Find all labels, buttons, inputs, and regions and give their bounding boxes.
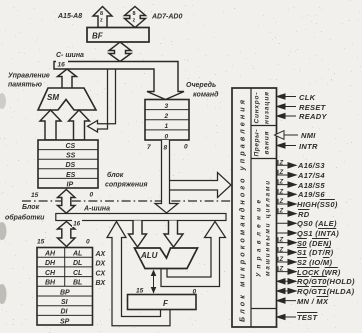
- pin TEST: [277, 314, 297, 319]
- svg-text:SP: SP: [60, 318, 70, 325]
- pin label A19/S6: [298, 190, 325, 199]
- pin RQ/GT1 bidirectional: [277, 288, 297, 293]
- svg-text:CX: CX: [96, 270, 107, 277]
- svg-text:SI: SI: [61, 299, 69, 306]
- Z markers for tri-state pins: [279, 160, 284, 272]
- svg-text:15: 15: [136, 288, 144, 295]
- svg-text:Z: Z: [279, 170, 284, 176]
- pin CLK: [284, 96, 296, 98]
- svg-text:Z: Z: [279, 257, 284, 263]
- svg-text:0: 0: [86, 239, 90, 246]
- svg-text:DL: DL: [73, 260, 82, 267]
- svg-text:15: 15: [37, 239, 45, 246]
- svg-text:1: 1: [165, 123, 169, 130]
- bus C (C-shina bar) with branch arrow down into instruction queue: [54, 62, 184, 100]
- adder SM (address summator): [38, 88, 96, 110]
- svg-text:CL: CL: [73, 270, 82, 277]
- pin label LOCK (WR): [297, 268, 341, 277]
- bus arrow IP stack to A-bus bidirectional: [58, 190, 76, 214]
- label 16 on A-bus: [72, 218, 82, 228]
- svg-text:Очередь: Очередь: [186, 81, 216, 89]
- pin RESET: [284, 106, 296, 108]
- pin A17/S4: [277, 170, 297, 178]
- svg-text:0: 0: [184, 144, 188, 151]
- svg-text:BX: BX: [96, 280, 107, 287]
- bus arrow BF to C-bus bidirectional: [109, 42, 131, 62]
- scan smudge left edge 3: [0, 284, 7, 304]
- svg-text:SM: SM: [47, 93, 59, 102]
- svg-text:Z: Z: [279, 160, 284, 166]
- svg-text:IP: IP: [67, 181, 74, 188]
- svg-text:Z: Z: [279, 199, 284, 205]
- ALU block (trapezoid with notch): [135, 248, 198, 269]
- bus arrow A-bus down to ALU left input: [129, 221, 147, 248]
- pin A16/S3: [277, 160, 297, 168]
- pin label NMI: [301, 131, 316, 140]
- svg-text:SS: SS: [66, 153, 76, 160]
- svg-text:сопряжения: сопряжения: [105, 182, 148, 189]
- pin label RQ/GT1 (HLDA): [297, 287, 354, 296]
- svg-text:команд: команд: [193, 91, 219, 99]
- bus arrow SM to C-bus: [58, 69, 77, 89]
- instruction queue block: [145, 100, 189, 141]
- pin QS1/INTA: [277, 230, 297, 235]
- pin QS0/ALE: [277, 221, 297, 226]
- pin label S0 (DEN): [297, 239, 332, 248]
- pin label QS0 (ALE): [297, 219, 337, 228]
- control block inner dividers: [251, 88, 277, 327]
- svg-text:7: 7: [147, 144, 151, 151]
- svg-text:Преры-: Преры-: [254, 130, 261, 157]
- register F (flags): [128, 295, 197, 310]
- svg-text:CS: CS: [66, 143, 76, 150]
- wire C-bus to SM right input (tri-state side path): [88, 69, 116, 132]
- svg-text:2: 2: [164, 113, 169, 120]
- pin label RD: [298, 210, 309, 219]
- pin label RQ/GT0 (HOLD): [297, 277, 355, 286]
- bus arrow A-bus down to ALU right input: [164, 221, 183, 248]
- pin HIGH/SS0: [277, 199, 297, 207]
- pin label MN/MX: [297, 297, 328, 306]
- svg-text:низация: низация: [264, 92, 271, 124]
- svg-text:BP: BP: [60, 289, 70, 296]
- pin MN/MX: [277, 298, 297, 303]
- register file AX DX CX BX BP SI DI SP: [37, 248, 93, 326]
- svg-text:8: 8: [133, 11, 136, 17]
- pin READY: [284, 115, 296, 117]
- svg-text:С- шина: С- шина: [56, 52, 84, 59]
- pin RQ/GT0 bidirectional: [277, 279, 297, 284]
- svg-text:BL: BL: [73, 280, 82, 287]
- svg-text:8: 8: [164, 145, 168, 152]
- control block outer (microcommand control unit): [232, 88, 277, 327]
- svg-text:A15-A8: A15-A8: [57, 13, 82, 20]
- svg-text:Z: Z: [279, 189, 284, 195]
- svg-text:0: 0: [165, 133, 169, 140]
- bus arrow A-bus to register file bidirectional: [58, 222, 76, 247]
- svg-text:Блок: Блок: [22, 204, 40, 211]
- wire queue to control block (fat arrow): [170, 173, 232, 198]
- svg-text:CH: CH: [45, 270, 56, 277]
- pin label INTR: [299, 142, 318, 151]
- svg-text:AX: AX: [95, 251, 107, 258]
- pin label TEST: [297, 313, 317, 322]
- bus A (A-shina bar): [56, 214, 226, 221]
- svg-text:0: 0: [193, 289, 197, 296]
- pin A18/S5: [277, 179, 297, 187]
- svg-text:Z: Z: [279, 180, 284, 186]
- pin A19/S6: [277, 189, 297, 197]
- svg-text:AL: AL: [72, 251, 82, 258]
- pin RD: [277, 208, 297, 216]
- svg-text:вания: вания: [264, 131, 271, 154]
- pin label A16/S3: [298, 161, 325, 170]
- svg-text:z: z: [100, 18, 103, 24]
- pin NMI: [284, 134, 298, 136]
- svg-text:3: 3: [165, 103, 169, 110]
- arrowheads ALU-F wire: [151, 270, 157, 294]
- bus arrow A15-A8 output (top left): [93, 7, 112, 28]
- bus arrow AD7-AD0 bidirectional (top): [125, 7, 146, 28]
- svg-text:блок: блок: [107, 171, 124, 179]
- pin S2/IOM: [277, 257, 297, 265]
- pin label A18/S5: [298, 181, 325, 190]
- svg-text:AD7-AD0: AD7-AD0: [151, 14, 182, 21]
- bus arrow segment registers to SM right input: [69, 110, 90, 140]
- svg-text:BF: BF: [92, 32, 104, 41]
- svg-text:15: 15: [31, 192, 39, 199]
- svg-text:DS: DS: [66, 162, 76, 169]
- svg-text:AH: AH: [44, 251, 56, 258]
- svg-text:16: 16: [58, 62, 66, 69]
- wire queue down to A-bus with arrowhead: [155, 140, 178, 213]
- bus arrow ALU output up to A-bus (right tall arrow with band A): [161, 222, 226, 287]
- svg-text:BH: BH: [45, 280, 56, 287]
- divider dash-dot line between interface block and execution block: [22, 200, 231, 202]
- svg-text:Управление: Управление: [8, 73, 50, 80]
- pin INTR: [284, 145, 296, 147]
- pin label S2 (IO/M): [297, 258, 332, 267]
- svg-text:Z: Z: [279, 247, 284, 253]
- svg-text:8: 8: [100, 11, 103, 17]
- svg-text:Z: Z: [279, 267, 284, 273]
- svg-text:ALU: ALU: [140, 251, 158, 260]
- pin label CLK: [299, 93, 315, 102]
- pin S1/DTR: [277, 247, 297, 255]
- pin label HIGH(SS0): [297, 200, 338, 209]
- register stack CS SS DS ES IP: [38, 140, 98, 188]
- pin label S1 (DT/R): [297, 248, 333, 257]
- wire ALU to F double arrow: [153, 271, 155, 293]
- pin LOCK/WR: [277, 266, 297, 274]
- scan smudge left edge 2: [0, 222, 7, 240]
- pin label READY: [299, 112, 327, 121]
- bus arrow F feedback up to A-bus (left tall arrow with band C): [107, 222, 170, 326]
- pin label A17/S4: [298, 171, 325, 180]
- svg-text:А-шина: А-шина: [83, 206, 110, 213]
- pin label RESET: [299, 103, 326, 112]
- svg-text:DX: DX: [96, 261, 107, 268]
- scan smudge left edge 1: [0, 93, 6, 109]
- block BF (bus buffer): [87, 28, 149, 43]
- pin S0/DEN: [277, 237, 297, 245]
- pin label QS1 (INTA): [297, 229, 339, 238]
- svg-text:16: 16: [73, 221, 80, 228]
- svg-text:DI: DI: [61, 309, 69, 316]
- svg-text:обработки: обработки: [5, 214, 45, 222]
- svg-text:z: z: [133, 18, 136, 24]
- svg-text:Z: Z: [279, 209, 284, 215]
- svg-text:Z: Z: [279, 238, 284, 244]
- svg-text:DH: DH: [45, 260, 56, 267]
- label 16 on C-bus: [56, 59, 68, 68]
- svg-text:0: 0: [90, 192, 94, 199]
- svg-text:Синхро-: Синхро-: [254, 93, 261, 124]
- bus arrow segment registers to SM left input: [40, 110, 61, 140]
- svg-text:ES: ES: [66, 172, 76, 179]
- svg-text:памятью: памятью: [8, 82, 42, 89]
